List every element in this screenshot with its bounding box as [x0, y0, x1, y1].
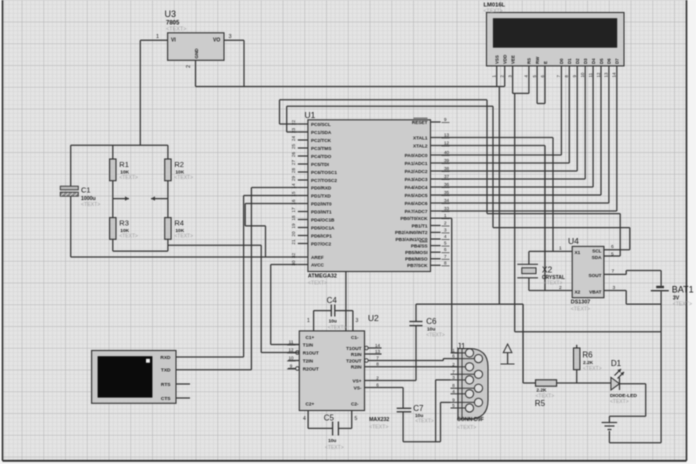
- label DS1307: [571, 300, 590, 313]
- svg-text:R4: R4: [174, 219, 184, 228]
- svg-text:SCL: SCL: [592, 249, 602, 254]
- resistor R3 10K: [110, 199, 116, 252]
- wire XTAL1 to X1: [441, 138, 553, 252]
- label J1: [457, 342, 466, 351]
- wire VBAT route: [604, 291, 661, 305]
- svg-text:PB7/SCK: PB7/SCK: [407, 263, 428, 268]
- svg-text:34: 34: [444, 198, 450, 203]
- svg-text:<TEXT>: <TEXT>: [610, 399, 629, 405]
- svg-text:VS-: VS-: [354, 385, 362, 390]
- svg-text:10u: 10u: [329, 319, 337, 325]
- MCU U1 ATMEGA32 body: [308, 120, 431, 272]
- svg-text:<TEXT>: <TEXT>: [119, 175, 138, 181]
- LED D1: [611, 369, 624, 390]
- svg-text:PC7/TOSC2: PC7/TOSC2: [311, 178, 337, 183]
- label R1: [119, 160, 138, 181]
- svg-text:21: 21: [291, 239, 296, 245]
- svg-text:11: 11: [289, 340, 294, 345]
- svg-text:XTAL2: XTAL2: [413, 143, 428, 148]
- wire AREF net: [71, 256, 298, 258]
- capacitor C1 1000u: [60, 186, 78, 196]
- svg-text:D4: D4: [591, 58, 596, 64]
- svg-text:38: 38: [444, 166, 450, 171]
- wire 5V drop to lower rail x499.3: [498, 87, 500, 305]
- wire SOUT to battery top: [604, 271, 661, 286]
- svg-text:27: 27: [291, 160, 296, 166]
- svg-text:BAT1: BAT1: [672, 285, 694, 295]
- wire J1 ground returns: [403, 380, 450, 442]
- svg-text:1: 1: [444, 213, 447, 218]
- svg-text:PC4/TDO: PC4/TDO: [311, 154, 332, 159]
- svg-text:<TEXT>: <TEXT>: [415, 419, 434, 425]
- crystal X2: [517, 264, 538, 278]
- svg-text:VS+: VS+: [353, 378, 362, 383]
- svg-text:PC6/TOSC1: PC6/TOSC1: [311, 170, 337, 175]
- wire divider top rail: [71, 144, 168, 146]
- wire rail to R5 x523: [522, 304, 524, 383]
- svg-text:9: 9: [452, 397, 455, 402]
- svg-text:PA5/ADC5: PA5/ADC5: [405, 193, 428, 198]
- svg-text:MAX232: MAX232: [369, 417, 389, 423]
- svg-text:PA6/ADC6: PA6/ADC6: [405, 201, 428, 206]
- wire PD0 to terminal TXD: [176, 188, 298, 370]
- wire X2 net: [529, 278, 572, 291]
- svg-text:XTAL1: XTAL1: [413, 135, 428, 140]
- battery BAT1 3V: [651, 287, 669, 291]
- svg-text:<TEXT>: <TEXT>: [484, 8, 503, 14]
- svg-text:U3: U3: [165, 9, 177, 19]
- svg-text:VBAT: VBAT: [589, 290, 602, 295]
- wire LCD RW E join: [537, 77, 545, 104]
- label R4: [174, 219, 193, 240]
- regulator U3 7805: [168, 33, 224, 61]
- U2 bottom pins to C5: [303, 411, 358, 429]
- svg-text:C7: C7: [413, 404, 424, 413]
- label C6: [426, 317, 445, 339]
- svg-text:<TEXT>: <TEXT>: [369, 425, 388, 431]
- svg-text:RXD: RXD: [160, 355, 171, 361]
- resistor R4 10K: [165, 199, 171, 252]
- svg-text:13: 13: [375, 349, 381, 354]
- svg-text:7: 7: [452, 369, 455, 374]
- wire terminal CTS stub: [176, 397, 190, 399]
- U1 left pin stubs and numbers: [291, 120, 308, 266]
- svg-text:PC5/TDI: PC5/TDI: [311, 162, 329, 167]
- label D1 DIODE-LED: [610, 359, 637, 405]
- wire T2OUT to J1 pin6: [368, 359, 458, 361]
- svg-text:<TEXT>: <TEXT>: [571, 307, 590, 313]
- svg-text:PA4/ADC4: PA4/ADC4: [405, 185, 428, 190]
- svg-text:<TEXT>: <TEXT>: [426, 333, 445, 339]
- svg-text:2: 2: [452, 362, 455, 367]
- svg-text:1: 1: [307, 318, 310, 324]
- label C5: [324, 414, 344, 452]
- svg-text:12: 12: [444, 141, 450, 146]
- svg-text:39: 39: [444, 158, 450, 163]
- label LM016L: [484, 3, 506, 15]
- svg-text:17: 17: [291, 207, 296, 213]
- svg-text:4: 4: [452, 389, 455, 394]
- svg-text:2: 2: [444, 221, 447, 226]
- wire U3 pin1 input: [140, 34, 167, 40]
- svg-text:28: 28: [291, 168, 296, 174]
- label R2: [174, 160, 193, 181]
- svg-text:3: 3: [444, 227, 447, 232]
- label R3: [119, 219, 138, 240]
- label MAX232: [369, 417, 389, 431]
- svg-text:C1+: C1+: [306, 335, 315, 340]
- svg-text:SOUT: SOUT: [588, 273, 601, 278]
- svg-text:1: 1: [559, 246, 562, 252]
- IC U4 DS1307 body: [572, 246, 604, 297]
- U2 right pin stubs: [365, 343, 382, 388]
- ground symbol: [602, 416, 618, 429]
- U1 right pin stubs and numbers: [431, 117, 450, 266]
- svg-text:8: 8: [376, 362, 379, 367]
- svg-text:26: 26: [291, 152, 296, 158]
- svg-text:ATMEGA32: ATMEGA32: [308, 274, 337, 280]
- svg-text:PB6/MISO: PB6/MISO: [405, 257, 428, 262]
- svg-text:13: 13: [604, 72, 609, 77]
- wire XTAL2 to X2: [441, 146, 545, 291]
- svg-text:5: 5: [355, 416, 358, 422]
- svg-text:C1: C1: [81, 186, 91, 195]
- svg-text:6: 6: [611, 244, 614, 250]
- wire LCD VDD to supply rail: [504, 77, 506, 87]
- svg-text:E: E: [543, 61, 548, 64]
- resistor R5 2.2K: [523, 380, 611, 386]
- svg-text:2: 2: [376, 375, 379, 380]
- svg-text:3: 3: [356, 318, 359, 324]
- svg-text:PA3/ADC3: PA3/ADC3: [405, 177, 428, 182]
- svg-text:12: 12: [288, 348, 294, 353]
- svg-text:PD0/RXD: PD0/RXD: [311, 185, 332, 190]
- svg-text:33: 33: [444, 206, 450, 211]
- svg-text:9: 9: [290, 364, 293, 369]
- svg-text:12: 12: [596, 72, 601, 77]
- svg-text:6: 6: [376, 382, 379, 387]
- svg-text:U2: U2: [368, 313, 379, 323]
- svg-text:PB3/AIN1/OC0: PB3/AIN1/OC0: [395, 237, 427, 242]
- svg-text:R1OUT: R1OUT: [303, 350, 319, 355]
- wire PB0 to J1 pin1: [441, 218, 458, 353]
- svg-text:40: 40: [444, 150, 450, 155]
- svg-text:D2: D2: [575, 58, 580, 64]
- svg-text:<TEXT>: <TEXT>: [544, 281, 563, 287]
- svg-text:U1: U1: [305, 110, 316, 120]
- wire AVCC to T1IN link: [271, 344, 300, 346]
- svg-text:GND: GND: [194, 48, 199, 59]
- svg-text:VO: VO: [213, 38, 220, 44]
- svg-text:36: 36: [444, 182, 450, 187]
- label C4: [327, 296, 347, 331]
- svg-text:5: 5: [611, 252, 614, 258]
- svg-text:C2+: C2+: [306, 402, 315, 407]
- svg-text:PD7/OC2: PD7/OC2: [311, 241, 331, 246]
- svg-text:DS1307: DS1307: [571, 300, 590, 306]
- svg-text:X1: X1: [575, 250, 581, 255]
- svg-text:11: 11: [588, 72, 593, 77]
- svg-text:T2IN: T2IN: [303, 358, 314, 363]
- label U3: [165, 9, 187, 33]
- wire U3 pin3 output 5V: [224, 34, 244, 40]
- svg-text:PD5/OC1A: PD5/OC1A: [311, 225, 335, 230]
- svg-text:R2: R2: [174, 160, 184, 169]
- wire PC1 SCL route: [287, 106, 630, 250]
- svg-text:35: 35: [444, 190, 450, 195]
- svg-text:37: 37: [444, 174, 450, 179]
- svg-text:D3: D3: [583, 58, 588, 64]
- svg-text:<TEXT>: <TEXT>: [174, 175, 193, 181]
- wire LCD data bus D0-D7 to PA0-PA7 staircase: [441, 77, 617, 211]
- svg-text:PC1/SDA: PC1/SDA: [311, 130, 332, 135]
- svg-text:T1OUT: T1OUT: [346, 346, 362, 351]
- svg-text:19: 19: [291, 223, 296, 229]
- U1 right pin names: [395, 120, 428, 268]
- wire long ground drop x514.7: [514, 93, 516, 331]
- LCD LCD1 LM016L body: [487, 13, 625, 66]
- svg-text:D5: D5: [599, 58, 604, 64]
- svg-text:R1: R1: [119, 160, 129, 169]
- svg-text:R2IN: R2IN: [351, 364, 362, 369]
- wire PD1 to terminal RXD: [176, 196, 298, 358]
- svg-text:6: 6: [444, 247, 447, 252]
- wire supply rail to LCD y86.5: [196, 86, 505, 88]
- svg-text:D1: D1: [611, 359, 622, 368]
- svg-text:7: 7: [444, 254, 447, 259]
- svg-text:<TEXT>: <TEXT>: [457, 425, 476, 431]
- label C7: [413, 404, 434, 425]
- power terminal arrow: [501, 344, 515, 364]
- svg-text:R1IN: R1IN: [351, 352, 362, 357]
- svg-text:14: 14: [375, 343, 381, 348]
- svg-text:16: 16: [291, 199, 296, 205]
- wire VS+ to C6: [365, 326, 417, 381]
- label X2 CRYSTAL: [542, 265, 565, 287]
- svg-text:PD2/INT0: PD2/INT0: [311, 201, 332, 206]
- svg-text:15: 15: [291, 191, 296, 197]
- svg-text:PD6/ICP1: PD6/ICP1: [311, 233, 332, 238]
- svg-text:20: 20: [291, 231, 296, 237]
- svg-text:PD4/OC1B: PD4/OC1B: [311, 217, 335, 222]
- svg-text:PB2/AIN0/INT2: PB2/AIN0/INT2: [395, 230, 428, 235]
- svg-text:10: 10: [580, 72, 585, 77]
- svg-text:13: 13: [444, 133, 450, 138]
- svg-text:J1: J1: [457, 342, 466, 351]
- wire LED cathode to ground: [609, 384, 645, 417]
- wire LCD VEE RS join: [513, 77, 529, 93]
- svg-text:<TEXT>: <TEXT>: [308, 281, 327, 287]
- svg-text:RS: RS: [527, 58, 532, 64]
- svg-text:5: 5: [452, 403, 455, 408]
- svg-text:X2: X2: [542, 265, 553, 275]
- wire 5V vertical drop x244: [243, 40, 245, 86]
- wire battery return bottom: [609, 431, 661, 443]
- svg-text:PA0/ADC0: PA0/ADC0: [405, 153, 428, 158]
- svg-text:PB1/T1: PB1/T1: [412, 223, 428, 228]
- svg-text:25: 25: [291, 144, 296, 150]
- svg-text:<TEXT>: <TEXT>: [81, 202, 100, 208]
- label R5: [535, 388, 554, 409]
- wire ground rail y331.8: [515, 331, 661, 333]
- svg-text:U4: U4: [568, 236, 579, 246]
- wire left branch through C1: [70, 145, 72, 257]
- label U1: [305, 110, 316, 120]
- svg-text:SDA: SDA: [592, 255, 603, 260]
- svg-text:R2OUT: R2OUT: [303, 366, 319, 371]
- svg-text:PC3/TMS: PC3/TMS: [311, 146, 331, 151]
- svg-text:C1-: C1-: [351, 335, 359, 340]
- capacitor C5 10u: [308, 422, 352, 436]
- svg-text:7: 7: [612, 269, 615, 275]
- connector J1 CONN-D9F: [451, 348, 489, 419]
- svg-text:D7: D7: [615, 58, 620, 64]
- svg-text:5: 5: [444, 241, 447, 246]
- svg-text:8: 8: [444, 260, 447, 265]
- svg-text:4: 4: [444, 234, 447, 239]
- svg-text:PB5/MOSI: PB5/MOSI: [405, 250, 427, 255]
- U1 left pin names: [311, 122, 337, 267]
- svg-text:PB0/T0/XCK: PB0/T0/XCK: [400, 216, 428, 221]
- svg-text:8: 8: [452, 383, 455, 388]
- label C1: [81, 186, 100, 209]
- svg-text:PA1/ADC1: PA1/ADC1: [405, 161, 428, 166]
- label U2: [368, 313, 379, 323]
- svg-text:AREF: AREF: [311, 255, 324, 260]
- wire R2IN to J1 pin2: [365, 366, 458, 368]
- wire terminal RTS stub: [176, 383, 190, 385]
- wire R1OUT link: [261, 352, 299, 354]
- svg-text:3: 3: [452, 375, 455, 380]
- svg-text:7: 7: [376, 355, 379, 360]
- capacitor C6 10u: [409, 304, 422, 326]
- svg-text:D1: D1: [567, 58, 572, 64]
- wire U3 pin2 ground stub: [186, 60, 196, 86]
- svg-text:VI: VI: [171, 38, 176, 44]
- wire LCD VSS to ground rail: [496, 77, 498, 87]
- label U4: [568, 236, 579, 246]
- svg-text:R5: R5: [535, 399, 546, 408]
- svg-text:6: 6: [452, 354, 455, 359]
- svg-text:9: 9: [444, 117, 447, 122]
- svg-text:<TEXT>: <TEXT>: [328, 325, 347, 331]
- svg-text:D6: D6: [607, 58, 612, 64]
- svg-text:R6: R6: [582, 351, 593, 360]
- LCD pin names: [495, 55, 620, 64]
- svg-text:1: 1: [452, 348, 455, 353]
- node tap arrow left: [113, 196, 129, 200]
- svg-text:30: 30: [291, 260, 296, 266]
- capacitor C7 10u: [397, 408, 412, 441]
- svg-text:<TEXT>: <TEXT>: [673, 302, 692, 308]
- svg-text:T1IN: T1IN: [303, 342, 314, 347]
- svg-text:TXD: TXD: [161, 368, 171, 374]
- svg-text:18: 18: [291, 215, 296, 221]
- label CONN-D9F: [457, 417, 484, 431]
- svg-text:PC2/TCK: PC2/TCK: [311, 138, 332, 143]
- wire X1 net: [529, 251, 572, 264]
- wire MCU bottom to U2: [345, 272, 347, 331]
- svg-text:C6: C6: [426, 317, 437, 326]
- LCD pin stubs and numbers: [492, 66, 617, 78]
- label BAT1: [672, 285, 694, 308]
- wire 5V lower rail y304: [416, 303, 523, 305]
- svg-text:<TEXT>: <TEXT>: [119, 234, 138, 240]
- wire U3 input feed down to divider: [139, 40, 141, 145]
- svg-text:T2OUT: T2OUT: [346, 358, 362, 363]
- svg-text:X2: X2: [575, 290, 581, 295]
- svg-text:10: 10: [288, 356, 294, 361]
- svg-text:CONN-D9F: CONN-D9F: [457, 417, 484, 423]
- wire VS- to C7: [365, 388, 404, 409]
- wire divider bottom rail: [113, 250, 168, 252]
- svg-text:PD1/TXD: PD1/TXD: [311, 193, 331, 198]
- resistor R1 10K: [110, 145, 116, 198]
- svg-text:10u: 10u: [328, 438, 336, 444]
- wire PD2 to AREF link: [245, 204, 298, 258]
- svg-text:<TEXT>: <TEXT>: [325, 445, 344, 451]
- svg-text:D0: D0: [559, 58, 564, 64]
- wire divider to R1OUT: [168, 245, 261, 352]
- resistor R6 2.2K: [574, 345, 580, 383]
- svg-text:RTS: RTS: [161, 382, 171, 388]
- svg-text:VDD: VDD: [503, 55, 508, 64]
- svg-text:14: 14: [291, 183, 296, 189]
- virtual terminal: [92, 351, 176, 404]
- svg-text:VSS: VSS: [495, 55, 500, 64]
- node tap arrow right: [151, 196, 168, 200]
- label ATMEGA32: [308, 274, 337, 287]
- wire AVCC net: [271, 265, 298, 345]
- svg-text:CTS: CTS: [161, 396, 171, 402]
- svg-text:<TEXT>: <TEXT>: [174, 234, 193, 240]
- svg-text:RESET: RESET: [412, 120, 428, 125]
- svg-text:1: 1: [156, 34, 159, 40]
- svg-text:R3: R3: [119, 219, 129, 228]
- wire PC0 SDA route: [280, 100, 621, 256]
- U4 pin numbers: [559, 244, 616, 291]
- svg-text:4: 4: [303, 416, 306, 422]
- svg-text:29: 29: [291, 176, 296, 182]
- svg-text:VEE: VEE: [510, 55, 515, 64]
- svg-text:RW: RW: [535, 56, 540, 64]
- label R6: [582, 351, 601, 373]
- resistor R2 10K: [165, 145, 171, 198]
- svg-text:C5: C5: [324, 414, 335, 423]
- svg-text:C4: C4: [327, 296, 338, 305]
- U2 left pin stubs: [287, 340, 299, 371]
- svg-text:3: 3: [229, 34, 232, 40]
- svg-text:PD3/INT1: PD3/INT1: [311, 209, 332, 214]
- IC U2 MAX232 body: [299, 331, 364, 411]
- svg-text:AVCC: AVCC: [311, 262, 325, 267]
- capacitor C4 10u: [307, 305, 359, 331]
- svg-text:32: 32: [291, 253, 296, 259]
- svg-text:C2-: C2-: [351, 402, 359, 407]
- svg-text:24: 24: [291, 136, 296, 142]
- U2 inside pin labels: [303, 335, 362, 407]
- svg-text:PA2/ADC2: PA2/ADC2: [405, 169, 428, 174]
- svg-text:PB4/SS: PB4/SS: [411, 243, 428, 248]
- svg-text:PC0/SCL: PC0/SCL: [311, 122, 331, 127]
- wire battery negative down: [660, 291, 662, 442]
- U4 pin names: [575, 249, 603, 295]
- svg-text:<TEXT>: <TEXT>: [166, 27, 186, 33]
- svg-text:<TEXT>: <TEXT>: [583, 366, 602, 372]
- svg-text:PA7/ADC7: PA7/ADC7: [405, 209, 428, 214]
- svg-text:2: 2: [186, 65, 192, 68]
- svg-text:14: 14: [612, 72, 617, 77]
